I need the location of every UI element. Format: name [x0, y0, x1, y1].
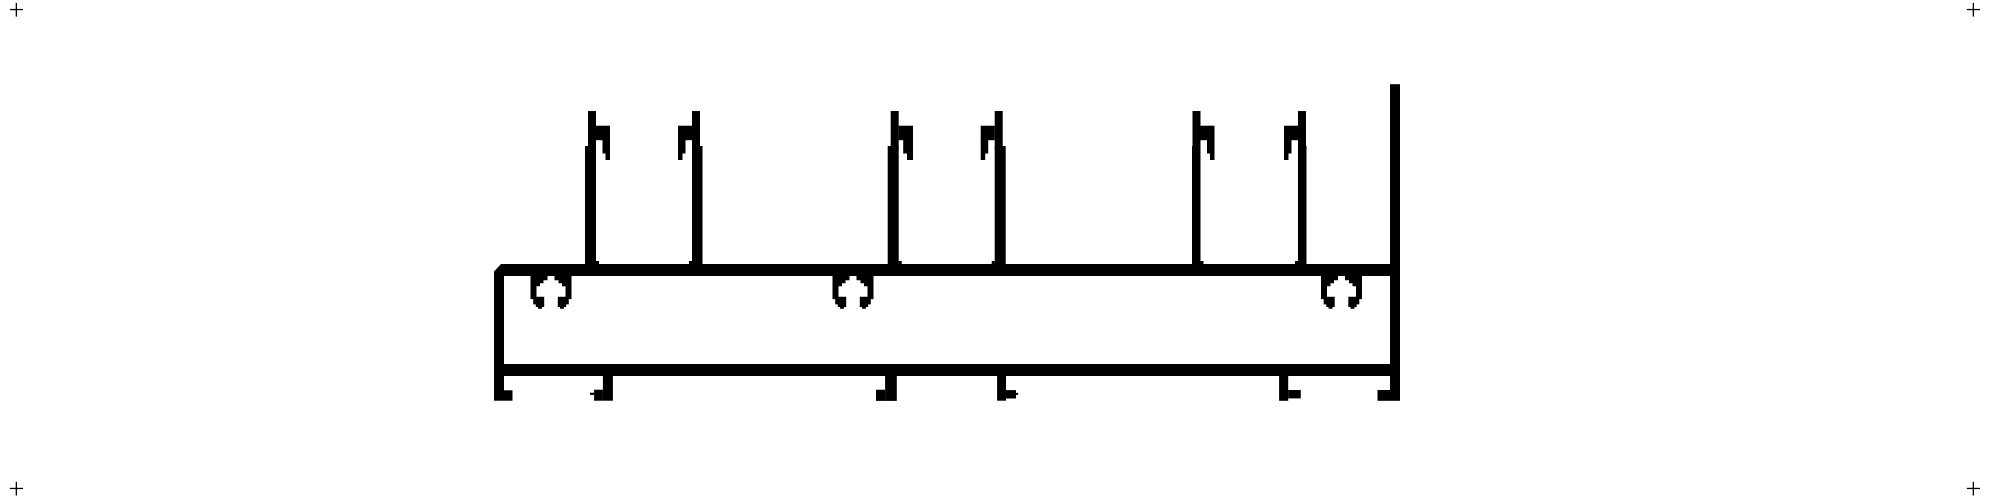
prong 3 (left hook fin, pair 2) [888, 111, 913, 264]
registration cross top-right [1967, 3, 1980, 17]
top flange (upper horizontal wall) [494, 264, 1400, 276]
left wall [494, 264, 504, 401]
bottom foot E (bar + right toe) [1279, 370, 1301, 401]
prong 5 (left hook fin, pair 3) [1192, 111, 1215, 264]
snap clip 2 (inside body, middle) [833, 275, 874, 309]
prong 6 (right hook fin, pair 3) [1284, 111, 1307, 264]
prong 1 (left hook fin, pair 1) [585, 111, 610, 264]
prong 4 (right hook fin, pair 2) [981, 111, 1006, 264]
registration cross bottom-right [1967, 482, 1980, 496]
chamfer notch on top-left corner [494, 264, 501, 272]
snap clip 1 (inside body, left) [531, 275, 572, 309]
bottom foot B (bar + left toe + nub) [590, 370, 613, 401]
bottom flange (lower horizontal wall) [494, 364, 1400, 376]
registration cross top-left [10, 3, 23, 17]
snap clip 3 (inside body, right) [1321, 275, 1362, 309]
bottom foot C (bar + left toe) [876, 370, 897, 401]
prong 2 (right hook fin, pair 1) [678, 111, 703, 264]
right wall foot toe [1378, 390, 1391, 401]
registration cross bottom-left [10, 482, 23, 496]
bottom foot D (bar + right toe + nub) [997, 370, 1018, 401]
right tall wall [1390, 84, 1400, 401]
left wall foot toe [504, 390, 513, 400]
